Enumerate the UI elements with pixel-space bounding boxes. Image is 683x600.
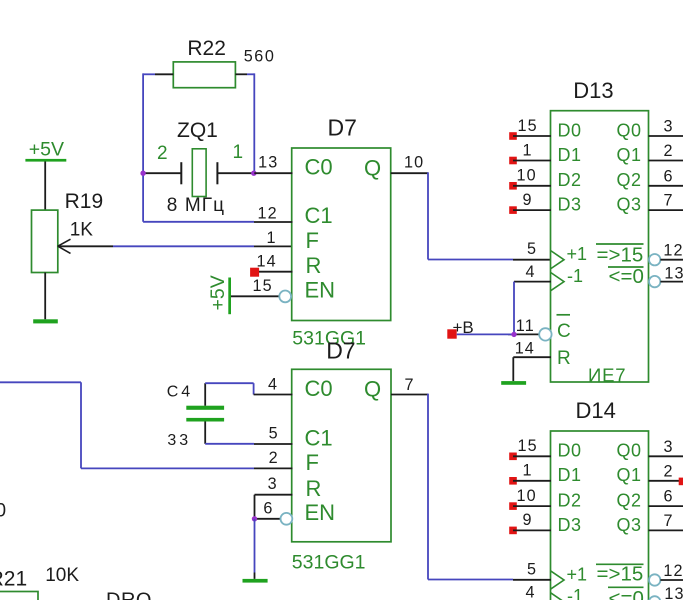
ground (below R19) [33, 319, 58, 323]
IC D13 (IE7 counter) body [551, 78, 649, 382]
wire EN node to ground [254, 519, 256, 579]
svg-text:+5V: +5V [29, 139, 64, 161]
svg-text:5: 5 [527, 560, 537, 578]
wire R22 left lead [143, 73, 173, 75]
node junction R/EN net [252, 516, 257, 521]
svg-text:+5V: +5V [207, 275, 229, 310]
svg-text:2: 2 [664, 462, 674, 480]
D13 data input D0 pin 15 [509, 117, 581, 141]
svg-text:5: 5 [269, 424, 279, 442]
svg-text:3: 3 [268, 475, 278, 493]
wire C4 top to pin 4 C0 [205, 375, 292, 394]
svg-text:EN: EN [305, 278, 336, 303]
svg-text:9: 9 [523, 511, 533, 529]
svg-text:D3: D3 [558, 515, 582, 535]
wire R22 left vertical net (to C1) [142, 73, 144, 221]
svg-text:Q2: Q2 [617, 170, 642, 190]
svg-text:13: 13 [664, 265, 683, 283]
svg-text:Q: Q [364, 155, 381, 180]
svg-text:1: 1 [233, 142, 244, 163]
svg-text:15: 15 [518, 437, 538, 455]
IC D7 (531GG1 oscillator, top) body [292, 114, 391, 349]
D14 output Q2 pin 6 [617, 488, 683, 511]
D13 +1 count-up pin 5 [527, 240, 587, 269]
bottom D7 pin 6 EN wire with inverter circle [255, 499, 293, 524]
D14 output Q3 pin 7 [617, 512, 683, 535]
svg-text:8 МГц: 8 МГц [167, 195, 225, 216]
wire C4 bottom to pin 5 C1 [205, 424, 292, 444]
svg-text:1: 1 [267, 229, 277, 247]
svg-text:C0: C0 [305, 155, 333, 180]
svg-text:-1: -1 [567, 586, 583, 600]
D7 pin 14 R stub with net flag [250, 253, 292, 277]
bottom D7 pin names [305, 376, 382, 525]
svg-text:Q1: Q1 [617, 465, 642, 485]
D14 -1 count-down pin 4 [526, 583, 584, 600]
D7 pin names [305, 155, 382, 303]
svg-text:DRQ: DRQ [106, 589, 152, 600]
svg-text:12: 12 [663, 242, 683, 260]
D13 type label IE7 [588, 365, 626, 386]
D14 data input D1 pin 1 [509, 462, 581, 486]
D13 data input D1 pin 1 [509, 141, 581, 165]
svg-text:4: 4 [526, 583, 536, 600]
D14 output Q1 pin 2 [617, 462, 683, 485]
svg-text:ZQ1: ZQ1 [177, 119, 218, 142]
svg-text:10: 10 [517, 487, 537, 505]
D13 data input D2 pin 10 [509, 167, 581, 191]
svg-text:10: 10 [517, 167, 537, 185]
svg-text:12: 12 [663, 562, 683, 580]
svg-text:C4: C4 [167, 383, 193, 400]
D13 output Q0 pin 3 [617, 118, 683, 141]
svg-text:7: 7 [664, 512, 674, 530]
D14 data input D3 pin 9 [509, 511, 581, 535]
svg-text:9: 9 [523, 191, 533, 209]
D7 pin 1 F label [267, 229, 277, 247]
svg-text:1: 1 [523, 141, 533, 159]
power +5V (rotated, at D7 EN) [207, 275, 231, 314]
svg-text:R22: R22 [187, 37, 226, 60]
resistor R22 560 [173, 37, 275, 88]
node junction +B / pin11 [511, 332, 516, 337]
partial signal label (cut at left edge) [0, 501, 6, 522]
D7 pin 15 EN wire with inverter circle [231, 277, 291, 303]
svg-text:D3: D3 [558, 195, 582, 215]
svg-text:2: 2 [157, 143, 168, 164]
svg-text:R19: R19 [65, 190, 104, 213]
wire pin 3 R down to EN node [255, 475, 293, 519]
svg-text:F: F [306, 450, 319, 475]
IC D14 (IE7 counter) body [551, 398, 649, 600]
svg-text:=>15: =>15 [597, 563, 644, 586]
svg-text:Q: Q [364, 377, 381, 402]
wire +5V to R19 top [44, 162, 46, 211]
svg-text:C0: C0 [305, 376, 333, 401]
svg-text:11: 11 [516, 317, 535, 335]
D14 data input D0 pin 15 [509, 437, 581, 461]
svg-text:0: 0 [0, 501, 6, 522]
svg-text:14: 14 [257, 253, 277, 271]
svg-text:+1: +1 [567, 564, 588, 584]
svg-text:D0: D0 [558, 441, 582, 461]
wire D13 pin4 -1 to +B net [514, 282, 551, 335]
svg-text:ИЕ7: ИЕ7 [588, 365, 626, 386]
svg-text:EN: EN [305, 500, 336, 525]
net flag +B [447, 318, 473, 339]
svg-text:D7: D7 [326, 337, 355, 363]
svg-text:D7: D7 [328, 114, 357, 140]
svg-text:Q1: Q1 [617, 145, 642, 165]
wire R22 right lead [235, 73, 254, 75]
wire R22 right vertical net (to C0) [253, 73, 255, 173]
svg-text:C1: C1 [305, 203, 333, 228]
svg-text:C: C [557, 321, 571, 342]
svg-text:<=0: <=0 [609, 587, 644, 600]
svg-text:5: 5 [527, 240, 537, 258]
wire from left edge to pin 2 F [0, 382, 293, 468]
svg-text:6: 6 [263, 499, 273, 517]
svg-text:C1: C1 [305, 425, 333, 450]
wire +B to D13 pin 11 [457, 333, 514, 335]
svg-text:4: 4 [526, 263, 536, 281]
D7 pin 10 Q output wire to D13 +1 [391, 154, 551, 260]
svg-text:7: 7 [664, 192, 674, 210]
D14 data input D2 pin 10 [509, 487, 581, 511]
D14 borrow output <=0 pin 13 [608, 585, 683, 600]
svg-text:R: R [557, 348, 571, 369]
svg-text:D13: D13 [573, 78, 613, 103]
svg-text:6: 6 [664, 167, 674, 185]
svg-text:Q2: Q2 [617, 491, 642, 511]
D13 clock C pin 11 (inverted) [508, 315, 571, 342]
svg-text:R: R [306, 476, 322, 501]
wire R19 bottom lead [44, 273, 46, 320]
svg-text:1: 1 [523, 462, 533, 480]
svg-text:R: R [306, 253, 322, 278]
svg-text:13: 13 [258, 154, 278, 172]
D13 carry output >=15 pin 12 [596, 242, 683, 267]
D7 pin 12 C1 wire [143, 204, 292, 222]
ground (below bottom D7) [243, 579, 268, 583]
svg-text:Q3: Q3 [617, 195, 642, 215]
svg-text:D0: D0 [558, 120, 582, 140]
svg-text:D2: D2 [558, 170, 582, 190]
D14 output Q0 pin 3 [617, 438, 683, 461]
svg-text:10: 10 [404, 154, 424, 172]
wire R19 wiper to D7 F pin (net) [58, 245, 293, 247]
svg-text:6: 6 [664, 488, 674, 506]
svg-text:+1: +1 [567, 244, 588, 264]
svg-text:2: 2 [269, 449, 279, 467]
svg-text:1K: 1K [70, 220, 94, 241]
svg-text:=>15: =>15 [597, 244, 644, 267]
crystal ZQ1 8 MHz [143, 119, 254, 216]
D13 output Q2 pin 6 [617, 167, 683, 190]
svg-text:<=0: <=0 [609, 265, 644, 288]
bottom D7 pin 7 Q output wire to D14 +1 [391, 376, 551, 580]
svg-text:F: F [306, 228, 319, 253]
svg-text:Q0: Q0 [617, 120, 642, 140]
svg-text:D1: D1 [558, 145, 582, 165]
D13 output Q1 pin 2 [617, 142, 683, 165]
resistor R21 10K (partially visible) [0, 565, 79, 600]
svg-text:D2: D2 [558, 491, 582, 511]
IC D7 (531GG1 oscillator, bottom) body [292, 337, 391, 573]
svg-text:15: 15 [518, 117, 538, 135]
D7 pin 13 C0 stub [254, 154, 292, 174]
D13 reset R pin 14 [513, 339, 570, 381]
D14 +1 count-up pin 5 [527, 560, 587, 589]
D13 output Q3 pin 7 [617, 192, 683, 215]
D14 carry output >=15 pin 12 [596, 562, 683, 586]
svg-text:7: 7 [405, 376, 415, 394]
svg-text:531GG1: 531GG1 [292, 552, 366, 574]
svg-text:3: 3 [664, 438, 674, 456]
node junction ZQ1 pin2 / C1 net [140, 171, 145, 176]
svg-text:12: 12 [258, 204, 278, 222]
svg-text:4: 4 [268, 375, 278, 393]
svg-text:3: 3 [664, 118, 674, 136]
D13 -1 count-down pin 4 [526, 263, 584, 291]
svg-text:-1: -1 [567, 266, 583, 286]
net flag (cut at right edge, on Q1 wire) [679, 478, 683, 486]
svg-text:D1: D1 [558, 465, 582, 485]
node junction ZQ1 pin1 / C0 net [251, 171, 256, 176]
signal label DRQ (cut at bottom edge) [106, 589, 152, 600]
svg-text:Q3: Q3 [617, 515, 642, 535]
svg-text:560: 560 [244, 48, 276, 66]
svg-text:10K: 10K [45, 565, 79, 586]
power +5V rail (left) [25, 139, 66, 162]
svg-text:D14: D14 [576, 398, 616, 423]
capacitor C4 33 [167, 383, 224, 449]
svg-text:R21: R21 [0, 568, 27, 591]
svg-text:33: 33 [167, 432, 191, 449]
svg-text:Q0: Q0 [617, 441, 642, 461]
svg-text:15: 15 [253, 277, 273, 295]
svg-text:14: 14 [515, 339, 535, 357]
ground (at D13 R pin) [501, 381, 526, 385]
resistor R19 1K (potentiometer) [32, 190, 104, 273]
D13 borrow output <=0 pin 13 [608, 265, 683, 289]
D13 data input D3 pin 9 [509, 191, 581, 215]
svg-text:13: 13 [664, 585, 683, 600]
svg-text:2: 2 [664, 142, 674, 160]
